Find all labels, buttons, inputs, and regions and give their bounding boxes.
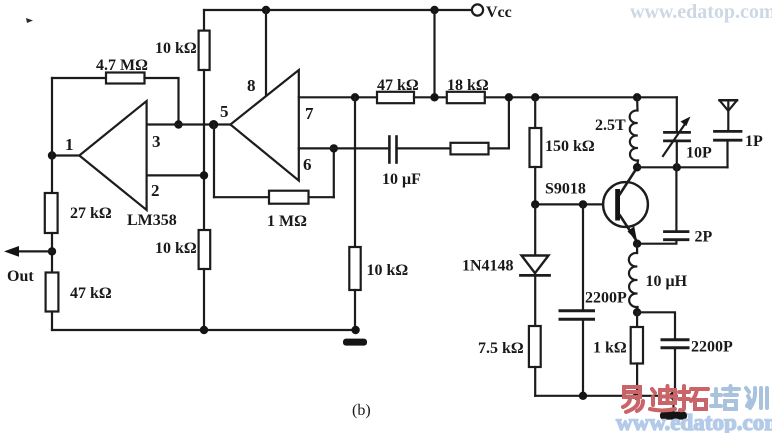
node rail end (351, 326, 359, 334)
node rail / divider (200, 326, 208, 334)
wire 1M loop right up (333, 148, 335, 197)
node emitter junction (633, 240, 641, 248)
transistor emitter lead (620, 216, 636, 241)
wire 2P bottom to emitter node (637, 240, 676, 244)
node pin2 / divider junction (200, 171, 208, 179)
svg-text:150 kΩ: 150 kΩ (545, 138, 595, 155)
wire left column (51, 78, 53, 193)
resistor R6 1 MOhm (269, 191, 309, 204)
wire ground rail right (535, 395, 673, 397)
capacitor C4 1P plates (715, 130, 742, 133)
node 150k top junction (531, 93, 539, 101)
wire 150k branch (534, 97, 536, 128)
wire 1k branch (636, 312, 638, 327)
wire 2P top stub (675, 167, 677, 231)
resistor R3 27 kOhm (45, 193, 58, 233)
wire pin 3 to pin 5 (147, 123, 231, 125)
wire 7.5k to rail (534, 367, 536, 396)
wire base line (535, 203, 603, 205)
svg-text:5: 5 (220, 102, 229, 121)
node pin7 / 10k junction (351, 93, 359, 101)
svg-text:1 kΩ: 1 kΩ (593, 340, 627, 357)
node 10uH bottom junction (633, 308, 641, 316)
node base left junction (531, 200, 539, 208)
svg-text:2P: 2P (695, 229, 713, 246)
node pin 1 junction (48, 151, 56, 159)
svg-text:47 kΩ: 47 kΩ (70, 285, 112, 302)
wire ground rail left (52, 329, 356, 331)
wire 10P top stub (676, 97, 678, 132)
node 10P bottom junction (673, 163, 681, 171)
wire top Vcc rail (204, 9, 472, 11)
node rail end right (669, 392, 677, 400)
svg-text:2.5T: 2.5T (595, 117, 626, 134)
svg-text:10P: 10P (686, 145, 712, 162)
node rail / 1k (633, 392, 641, 400)
capacitor C5 2P plates (665, 230, 689, 233)
wire pin 7 output line (299, 96, 377, 98)
svg-text:S9018: S9018 (545, 181, 586, 198)
wire pin 1 output (52, 154, 79, 156)
svg-text:1P: 1P (745, 133, 763, 150)
svg-text:10 kΩ: 10 kΩ (367, 262, 409, 279)
svg-text:10 kΩ: 10 kΩ (155, 240, 197, 257)
svg-text:1: 1 (65, 135, 74, 154)
transistor collector lead (620, 168, 637, 194)
resistor R12 7.5 kOhm (529, 326, 541, 367)
wire pin5 stub down (213, 125, 215, 198)
node coil bottom junction (633, 163, 641, 171)
watermark CJK: Yi Di Tuo (red) Pei Xun (blue) (623, 387, 643, 412)
wire divider to ground rail (203, 269, 205, 330)
svg-text:2: 2 (151, 181, 160, 200)
svg-text:10 μH: 10 μH (646, 273, 688, 290)
wire 1k to rail (636, 364, 638, 396)
wire cap to feedback resistor (397, 147, 451, 149)
op-amp U1B triangle (230, 70, 298, 181)
wire feedback resistor up to output line (489, 97, 509, 148)
node feedback / pin3 junction (174, 120, 182, 128)
svg-text:2200P: 2200P (691, 339, 733, 356)
svg-text:27 kΩ: 27 kΩ (70, 205, 112, 222)
wire 2200P branch (582, 204, 584, 310)
node junction top rail / divider drop (430, 6, 438, 14)
wire 27k to Out node (51, 233, 53, 273)
ground symbol right (660, 412, 687, 420)
svg-text:7: 7 (305, 104, 314, 123)
svg-text:47 kΩ: 47 kΩ (377, 77, 419, 94)
resistor R5 4.7 MOhm (106, 73, 145, 84)
transistor Q1 S9018 circle (603, 182, 648, 227)
capacitor C1 10uF plates (388, 137, 391, 163)
node pin5 junction (209, 120, 218, 129)
wire pin 6 line (299, 147, 390, 149)
wire Out arrow line (10, 250, 52, 252)
resistor R4 47 kOhm (46, 273, 59, 312)
capacitor C3 10P variable plates (665, 131, 690, 134)
node base mid junction (579, 200, 587, 208)
ground symbol left (343, 339, 367, 346)
transistor emitter arrowhead (628, 226, 638, 241)
vertical B: pin7 node to ground (354, 97, 356, 247)
diode D1 1N4148 (522, 256, 549, 274)
node divider mid (430, 93, 438, 101)
resistor R7 (feedback, unlabeled) (451, 143, 489, 155)
wire C2 to rail (582, 319, 584, 396)
node rail / C2 (579, 392, 587, 400)
svg-text:www.edatop.com: www.edatop.com (616, 410, 772, 433)
wire divider mid segment (203, 70, 205, 230)
capacitor C3 arrow (663, 121, 687, 156)
resistor R11 150 kOhm (530, 128, 542, 167)
node Out junction (48, 247, 56, 255)
node feedback top junction (505, 93, 513, 101)
wire pin 8 drop (265, 10, 267, 96)
transistor base bar (615, 189, 620, 221)
wire 18k to tank (485, 96, 677, 98)
wire 1P bottom stub (726, 140, 728, 167)
svg-text:3: 3 (152, 132, 161, 151)
resistor R10 10 kOhm (bottom middle) (349, 247, 360, 290)
svg-text:1 MΩ: 1 MΩ (267, 213, 307, 230)
svg-text:7.5 kΩ: 7.5 kΩ (478, 340, 524, 357)
wire tank bottom line (637, 166, 727, 168)
svg-text:LM358: LM358 (127, 212, 177, 229)
svg-text:1N4148: 1N4148 (462, 258, 514, 275)
svg-text:Out: Out (7, 268, 34, 285)
wire Vcc to divider junction (433, 10, 435, 97)
svg-text:4.7 MΩ: 4.7 MΩ (96, 57, 148, 74)
inductor L1 2.5T (630, 97, 638, 167)
node pin6 junction (330, 144, 338, 152)
Vcc terminal circle (472, 4, 483, 15)
svg-text:2200P: 2200P (585, 290, 627, 307)
wire 150k to base line (534, 167, 536, 204)
speck artifact top-left (26, 18, 33, 23)
svg-text:www.edatop.com: www.edatop.com (630, 1, 772, 23)
resistor R1 10 kOhm (top left vertical) (203, 10, 205, 31)
wire pin 2 (147, 174, 204, 176)
wire feedback right (145, 78, 179, 125)
wire 47k to ground rail (51, 312, 53, 331)
resistor R13 1 kOhm (631, 327, 643, 364)
resistor R9 18 kOhm (447, 92, 485, 103)
node junction top rail / pin8 drop (262, 6, 270, 14)
wire 47k-18k (414, 96, 447, 98)
wire diode branch top (534, 204, 536, 255)
svg-text:10 μF: 10 μF (382, 171, 421, 188)
wire R10 to rail (354, 290, 356, 330)
svg-text:6: 6 (303, 155, 312, 174)
wire C6 to rail (674, 348, 676, 396)
node coil top junction (633, 93, 641, 101)
wire diode to 7.5k (534, 275, 536, 326)
svg-text:10 kΩ: 10 kΩ (155, 40, 197, 57)
capacitor C2 2200P plates (560, 309, 594, 312)
antenna (720, 99, 738, 102)
wire to 2200P right (637, 312, 675, 340)
inductor L2 10uH (629, 244, 638, 313)
op-amp U1A triangle (79, 101, 146, 210)
resistor R2 10 kOhm (mid left vertical) (199, 230, 211, 269)
wire ground stem (672, 396, 674, 412)
capacitor C6 2200P plates (662, 338, 688, 341)
svg-text:(b): (b) (352, 402, 371, 419)
wire 1M loop bottom (214, 196, 334, 198)
svg-text:8: 8 (247, 76, 256, 95)
svg-text:18 kΩ: 18 kΩ (447, 77, 489, 94)
svg-text:Vcc: Vcc (486, 4, 512, 21)
resistor R8 47 kOhm (top) (377, 92, 414, 103)
wire feedback top (52, 77, 106, 79)
